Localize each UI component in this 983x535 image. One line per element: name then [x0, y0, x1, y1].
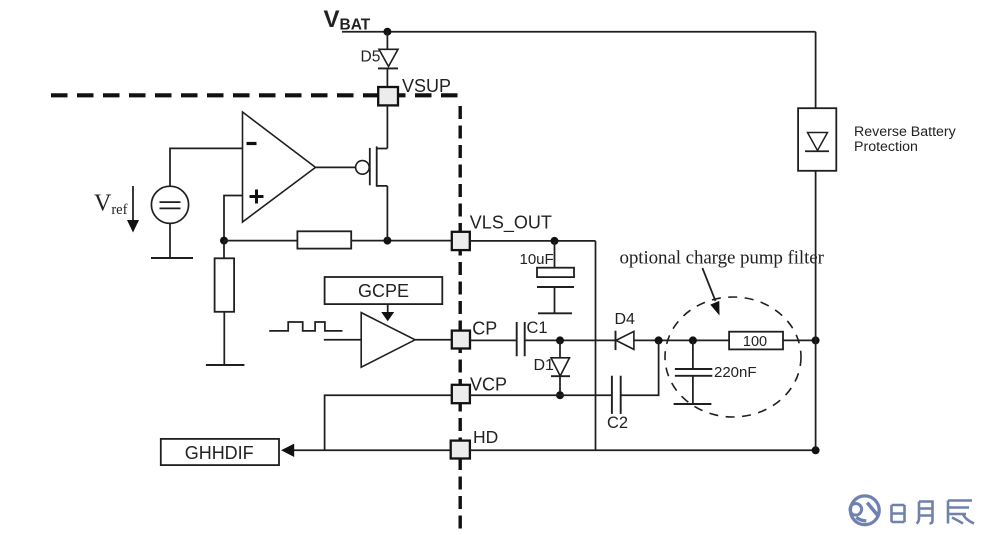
ground R2: [206, 364, 245, 366]
capacitor C2: [612, 376, 621, 414]
pin VSUP: [378, 87, 398, 105]
chip boundary dashed horizontal: [51, 93, 459, 97]
pin HD: [451, 441, 470, 459]
arrow to ellipse: [702, 268, 719, 316]
junction node A: [220, 237, 228, 245]
junction VCP node: [556, 391, 564, 399]
svg-text:D4: D4: [615, 311, 636, 328]
wire node A to R1: [224, 240, 297, 242]
wire top rail: [342, 31, 816, 33]
block GCPE: [325, 277, 443, 304]
wire buffer input: [324, 339, 361, 341]
wire HD right: [470, 449, 816, 451]
wire V_BAT to D5: [386, 32, 388, 50]
resistor R2 vertical: [215, 241, 235, 365]
wire VLS_OUT vertical down: [595, 241, 597, 450]
block GHHDIF: [161, 439, 279, 465]
junction rail filter: [812, 336, 820, 344]
capacitor C1: [517, 322, 525, 356]
junction filter cap: [689, 336, 697, 344]
resistor 100: [729, 332, 783, 350]
diode D1: [551, 340, 570, 395]
wire inverting input from Vref: [170, 148, 243, 186]
wire VCP to HD row: [325, 395, 452, 450]
svg-text:100: 100: [743, 334, 767, 350]
svg-text:220nF: 220nF: [714, 364, 757, 381]
wire CP to C1: [470, 339, 517, 341]
square wave symbol: [269, 322, 342, 331]
svg-text:HD: HD: [473, 427, 498, 447]
buffer amplifier: [361, 313, 415, 368]
wire C2 up to D4 node: [621, 340, 659, 395]
wire 100 to rail: [783, 339, 816, 341]
svg-text:C2: C2: [607, 414, 628, 432]
junction HD rail: [812, 446, 820, 454]
pin VLS_OUT: [452, 232, 470, 250]
junction 10uF tap: [551, 237, 559, 245]
ground 220nF: [674, 403, 712, 405]
transistor M1: [370, 146, 388, 186]
arrow GCPE to buffer: [381, 304, 394, 321]
diode D4: [616, 331, 634, 350]
wire buffer to CP: [415, 339, 452, 341]
wire HD left with arrowhead: [281, 444, 451, 457]
diode D5: [378, 49, 398, 68]
svg-text:optional charge pump filter: optional charge pump filter: [620, 247, 825, 268]
svg-text:D1: D1: [534, 357, 555, 374]
logo text 日月辰: [892, 501, 975, 524]
ground 10uF: [538, 312, 572, 314]
svg-text:10uF: 10uF: [520, 251, 554, 268]
svg-text:GCPE: GCPE: [358, 281, 409, 301]
pin VCP: [452, 385, 470, 403]
arrow Vref down: [127, 186, 139, 233]
capacitor 10uF: [537, 241, 574, 313]
dashed ellipse filter: [665, 297, 801, 417]
wire noninverting input: [224, 196, 243, 241]
svg-text:VLS_OUT: VLS_OUT: [470, 213, 552, 234]
svg-text:VSUP: VSUP: [402, 76, 451, 96]
svg-text:D5: D5: [361, 48, 381, 65]
junction V_BAT node: [383, 28, 391, 36]
wire VSUP to transistor drain: [386, 105, 388, 148]
wire op-amp output: [316, 166, 356, 168]
svg-text:CP: CP: [472, 319, 497, 339]
right rail wire: [815, 32, 817, 451]
resistor R1: [297, 231, 351, 248]
voltage source Vref: [151, 186, 188, 223]
wire VCP row: [470, 394, 612, 396]
capacitor 220nF: [675, 340, 712, 404]
op-amp U1: [243, 112, 316, 222]
wire transistor source to VLS node: [386, 186, 388, 241]
ground Vref: [151, 257, 193, 259]
junction CP C1 node: [556, 336, 564, 344]
logo icon: [850, 496, 879, 525]
chip boundary dashed vertical: [459, 106, 462, 533]
svg-text:C1: C1: [527, 319, 548, 337]
reverse battery protection box: [798, 108, 836, 171]
wire R1 to VLS node: [351, 240, 452, 242]
inverter bubble: [356, 161, 370, 175]
wire Vref to ground: [169, 223, 171, 258]
wire VLS_OUT to right: [470, 240, 596, 242]
wire D5 to VSUP: [386, 68, 388, 87]
wire C1 to D4: [525, 339, 616, 341]
junction VLS node: [383, 237, 391, 245]
junction D4 out: [655, 336, 663, 344]
wire D4 to filter: [634, 339, 729, 341]
svg-text:VCP: VCP: [470, 375, 507, 395]
svg-text:GHHDIF: GHHDIF: [185, 443, 254, 463]
pin CP: [452, 331, 470, 349]
